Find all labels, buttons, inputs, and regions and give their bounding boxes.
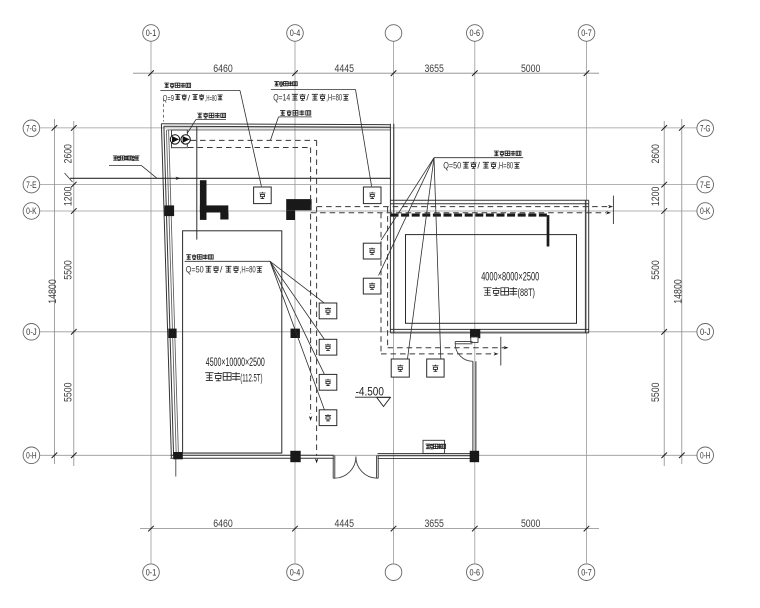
leader fan A to pump boxes (270, 261, 325, 303)
svg-text:(88T): (88T) (518, 287, 536, 299)
pump box B5 (319, 303, 337, 319)
svg-text:-4.500: -4.500 (356, 385, 385, 399)
axis bubbles left and right (23, 120, 40, 137)
column (stair shaped shear wall) near 7-E (200, 180, 207, 220)
pipe continuation cut line lower (500, 337, 502, 366)
pump box B8 (319, 410, 337, 426)
right water tank 4000x8000x2500 (inner) (406, 235, 577, 324)
pump box B2 (363, 187, 381, 204)
svg-text:Q=50: Q=50 (443, 161, 461, 171)
svg-text:14800: 14800 (673, 279, 685, 304)
annotation: existing pump Q=14 (pseudo CJK title) (274, 82, 279, 86)
double door in bottom wall (332, 456, 334, 479)
svg-text:0-7: 0-7 (581, 28, 592, 39)
annotation: existing pump Q=50 top (pseudo CJK title) (494, 151, 499, 156)
svg-text:5500: 5500 (63, 382, 75, 402)
svg-text:0-H: 0-H (26, 451, 37, 462)
single door in lower-right room wall (455, 341, 472, 343)
svg-text:0-7: 0-7 (581, 567, 592, 578)
svg-text:(112.5T): (112.5T) (240, 372, 262, 384)
svg-text:4500×10000×2500: 4500×10000×2500 (206, 355, 265, 369)
left tank label (pseudo CJK) 112.5T (205, 373, 213, 381)
svg-text:5500: 5500 (650, 382, 662, 402)
annotation: drain pit label (pseudo CJK) (280, 111, 285, 116)
small dashed stub above wall corner (163, 99, 165, 122)
dashed riser x=316.6 (316, 140, 318, 456)
svg-text:0-K: 0-K (700, 206, 711, 217)
dashed riser x=310.6 (310, 148, 312, 415)
svg-text:0-J: 0-J (26, 327, 37, 338)
bottom wall right of door (378, 453, 480, 455)
svg-text:,H=80: ,H=80 (497, 161, 513, 171)
svg-text:4000×8000×2500: 4000×8000×2500 (481, 269, 539, 283)
lower-right room west wall (472, 361, 474, 455)
column bottom-left corner (173, 452, 183, 459)
dashed pipes to lower door area (388, 347, 505, 349)
dashed suction pipes from pumps (191, 139, 317, 141)
dimension lines left/right (73, 121, 75, 466)
dashed header pipes to the right (317, 206, 609, 208)
pump box B3 (363, 243, 381, 259)
svg-text:0-H: 0-H (700, 451, 711, 462)
svg-text:0-6: 0-6 (470, 28, 481, 39)
annotation: existing pump Q=9 (pseudo CJK title) (164, 83, 169, 88)
svg-text:3655: 3655 (424, 63, 444, 75)
leader fan B to pump boxes (381, 158, 434, 240)
annotation: existing pump Q=50 left (pseudo CJK title) (186, 255, 191, 260)
svg-text:5000: 5000 (521, 63, 541, 75)
tank room bottom wall (390, 328, 588, 330)
svg-text:5500: 5500 (63, 260, 75, 280)
svg-text:6460: 6460 (213, 63, 233, 75)
left water tank 4500x10000x2500 (183, 231, 282, 453)
svg-text:,H=80: ,H=80 (205, 93, 217, 103)
building left wall (slightly skewed) (161, 124, 171, 459)
svg-text:Q=50: Q=50 (186, 265, 204, 275)
pump box B6 (319, 339, 337, 355)
svg-text:2600: 2600 (650, 144, 662, 164)
pump box B4 (363, 278, 381, 294)
column on left wall at 0-J (168, 329, 176, 338)
svg-text:Q=9: Q=9 (163, 93, 174, 103)
pump box B10 (427, 359, 444, 377)
axis bubbles top and bottom (143, 25, 160, 42)
axis grid lines (150, 41, 152, 563)
sump pump enclosure (172, 130, 188, 148)
svg-text:Q=14: Q=14 (273, 93, 290, 103)
svg-text:0-1: 0-1 (146, 28, 157, 39)
pump box B7 (319, 374, 337, 390)
annotation: city water supply tiny label (pseudo CJK) (113, 156, 118, 160)
svg-text:5000: 5000 (521, 518, 541, 530)
svg-text:0-6: 0-6 (470, 567, 481, 578)
column on left wall at 0-K (165, 205, 175, 216)
building top wall (pump room) (161, 124, 390, 125)
dashed drops left of tank room wall (387, 207, 389, 348)
svg-text:4445: 4445 (335, 63, 355, 75)
svg-text:5500: 5500 (650, 260, 662, 280)
dimension lines top/bottom (133, 72, 599, 74)
annotation: sump pit label (pseudo CJK) (197, 113, 202, 118)
thick dashed pipe in tank room (391, 214, 550, 217)
column at 0-6 / 0-J (470, 329, 480, 338)
left tank bottom inner line (184, 452, 282, 454)
svg-text:7-G: 7-G (700, 124, 711, 135)
pump room right wall / tank room left wall (389, 124, 391, 333)
svg-text:,H=80: ,H=80 (326, 93, 342, 103)
vertical pipe drop into left tank (196, 127, 198, 240)
small jamb box below 0-6/0-J column (471, 337, 478, 342)
svg-text:14800: 14800 (47, 279, 59, 304)
svg-text:1200: 1200 (63, 187, 75, 207)
stub line below bottom-left corner (175, 459, 177, 477)
pump box B1 (254, 187, 272, 204)
svg-text:7-G: 7-G (26, 124, 37, 135)
bottom wall left segment with door opening (170, 454, 333, 456)
svg-text:1200: 1200 (650, 187, 662, 207)
column at 0-4 / 0-J (291, 329, 300, 338)
svg-text:0-1: 0-1 (146, 567, 157, 578)
svg-text:3655: 3655 (424, 518, 444, 530)
leader to pump box B2 (356, 90, 372, 187)
column at 0-4 bottom wall (290, 451, 300, 462)
pipe continuation cut line right (612, 196, 614, 224)
tank room right wall (584, 200, 586, 333)
svg-text:0-4: 0-4 (290, 28, 301, 39)
svg-text:4445: 4445 (335, 518, 355, 530)
svg-text:0-4: 0-4 (290, 567, 301, 578)
svg-text:7-E: 7-E (700, 180, 711, 191)
svg-text:0-J: 0-J (700, 327, 711, 338)
solid water pipe along y=178 (70, 177, 390, 179)
control cabinet box with tiny label (423, 440, 445, 453)
svg-text:7-E: 7-E (26, 180, 37, 191)
sump pump P1 (170, 135, 179, 144)
svg-text:2600: 2600 (63, 144, 75, 164)
column at 0-6 bottom wall (470, 451, 479, 462)
leader to pump box B1 (240, 90, 261, 186)
break tick at pipe left end (65, 173, 73, 182)
pump box B9 (391, 359, 409, 377)
svg-text:0-K: 0-K (26, 206, 37, 217)
column gamma-shaped at 0-K / 0-4 (286, 199, 311, 210)
svg-text:6460: 6460 (213, 518, 233, 530)
sump pump P2 (181, 135, 190, 144)
svg-text:,H=80: ,H=80 (240, 265, 256, 275)
arrowhead on pipe at x=179 (176, 177, 181, 180)
right tank label (pseudo CJK) 88T (483, 288, 491, 295)
tank room top wall (390, 199, 588, 201)
